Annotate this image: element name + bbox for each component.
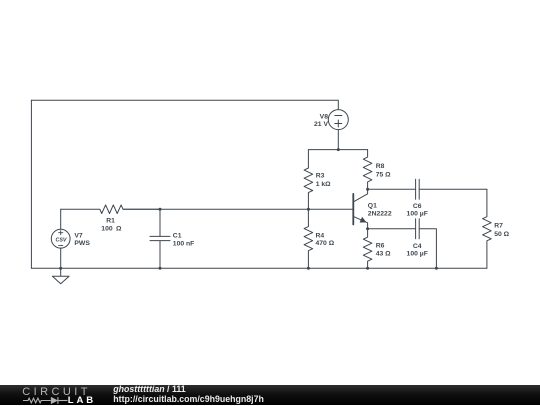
CircuitLab logo bbox=[22, 386, 91, 398]
resistor R3 bbox=[304, 150, 313, 210]
svg-text:PWS: PWS bbox=[74, 240, 90, 247]
wire C6 to R7 bbox=[419, 188, 487, 190]
svg-text:V7: V7 bbox=[74, 232, 83, 239]
svg-text:100 nF: 100 nF bbox=[173, 241, 195, 248]
svg-text:100 µF: 100 µF bbox=[407, 250, 428, 257]
capacitor C4 bbox=[416, 219, 420, 239]
capacitor C1 bbox=[150, 209, 170, 268]
voltage source V7 bbox=[51, 229, 70, 248]
node collector junction bbox=[366, 188, 369, 191]
svg-text:50 Ω: 50 Ω bbox=[494, 231, 509, 238]
wire collector rail to C6 bbox=[368, 188, 416, 190]
svg-text:CSV: CSV bbox=[56, 237, 67, 243]
svg-text:C4: C4 bbox=[413, 243, 422, 250]
wire C4 to bottom rail bbox=[419, 229, 436, 269]
node V8-R3-R8 junction bbox=[337, 148, 340, 151]
node R4 bottom junction bbox=[307, 267, 310, 270]
ground bbox=[52, 268, 69, 283]
transistor Q1 bbox=[353, 189, 367, 229]
svg-text:R4: R4 bbox=[316, 233, 325, 240]
wire mid rail R3-R8 bbox=[308, 149, 367, 151]
node R6 bottom junction bbox=[366, 267, 369, 270]
svg-text:75 Ω: 75 Ω bbox=[376, 172, 391, 179]
wire emitter rail to C4 bbox=[368, 228, 416, 230]
wire left rail bbox=[30, 100, 32, 268]
svg-text:C1: C1 bbox=[173, 233, 182, 240]
capacitor C6 bbox=[416, 179, 420, 199]
svg-text:R7: R7 bbox=[494, 222, 503, 229]
footer url text bbox=[113, 394, 264, 404]
node ground junction bbox=[59, 267, 62, 270]
svg-text:470 Ω: 470 Ω bbox=[316, 240, 335, 247]
svg-text:R6: R6 bbox=[376, 243, 385, 250]
svg-text:R1: R1 bbox=[106, 218, 115, 225]
node base-C1 junction bbox=[159, 208, 162, 211]
svg-text:C6: C6 bbox=[413, 203, 422, 210]
node C4 bottom junction bbox=[435, 267, 438, 270]
node emitter junction bbox=[366, 227, 369, 230]
resistor R8 bbox=[363, 150, 372, 190]
voltage source V8 bbox=[328, 110, 348, 130]
wire V7 stub bbox=[60, 209, 62, 268]
svg-text:21 V: 21 V bbox=[314, 121, 328, 128]
svg-text:R3: R3 bbox=[316, 173, 325, 180]
resistor R1 bbox=[61, 205, 160, 214]
resistor R7 bbox=[483, 189, 492, 268]
footer title text bbox=[113, 384, 185, 394]
footer bar bbox=[0, 385, 540, 406]
svg-text:100 Ω: 100 Ω bbox=[101, 226, 122, 233]
node C1 bottom junction bbox=[159, 267, 162, 270]
wire V8 to mid node bbox=[337, 130, 339, 150]
svg-text:2N2222: 2N2222 bbox=[368, 210, 392, 217]
wire base rail bbox=[123, 208, 353, 210]
svg-text:1 kΩ: 1 kΩ bbox=[316, 181, 331, 188]
svg-text:Q1: Q1 bbox=[368, 203, 377, 210]
node base-R3-R4 junction bbox=[307, 208, 310, 211]
svg-text:43 Ω: 43 Ω bbox=[376, 251, 391, 258]
wire bottom rail bbox=[31, 267, 487, 269]
svg-text:100 µF: 100 µF bbox=[407, 211, 428, 218]
wire top rail bbox=[31, 100, 338, 109]
resistor R4 bbox=[304, 209, 313, 268]
resistor R6 bbox=[363, 229, 372, 269]
svg-text:V8: V8 bbox=[320, 114, 329, 121]
svg-text:R8: R8 bbox=[376, 163, 385, 170]
